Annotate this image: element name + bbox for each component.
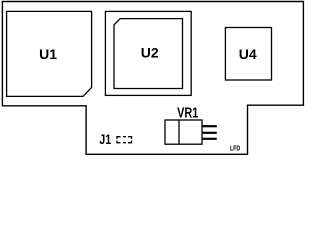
svg-text:VR1: VR1 bbox=[177, 104, 198, 121]
VR1 pin 3 bbox=[203, 138, 217, 140]
voltage regulator VR1 bbox=[165, 104, 217, 144]
IC U2 bbox=[105, 11, 191, 95]
J1 dashed outline bbox=[117, 137, 132, 143]
svg-text:U2: U2 bbox=[141, 45, 159, 61]
U2 inner outline (chamfered corner) bbox=[114, 19, 183, 89]
VR1 body divider bbox=[178, 120, 180, 144]
VR1 body bbox=[165, 120, 202, 144]
U4 outline bbox=[225, 28, 271, 81]
svg-text:LFD: LFD bbox=[230, 145, 240, 153]
VR1 pin 2 bbox=[203, 132, 217, 134]
board outline bbox=[2, 2, 303, 155]
svg-text:U4: U4 bbox=[239, 46, 257, 62]
VR1 pin 1 bbox=[203, 125, 217, 127]
connector J1 bbox=[99, 132, 131, 148]
U1 outline (chamfered corner) bbox=[7, 11, 92, 96]
svg-text:U1: U1 bbox=[39, 46, 57, 62]
U2 outer outline bbox=[105, 11, 191, 95]
IC U1 bbox=[7, 11, 92, 96]
svg-text:J1: J1 bbox=[99, 132, 111, 148]
IC U4 bbox=[225, 28, 271, 81]
